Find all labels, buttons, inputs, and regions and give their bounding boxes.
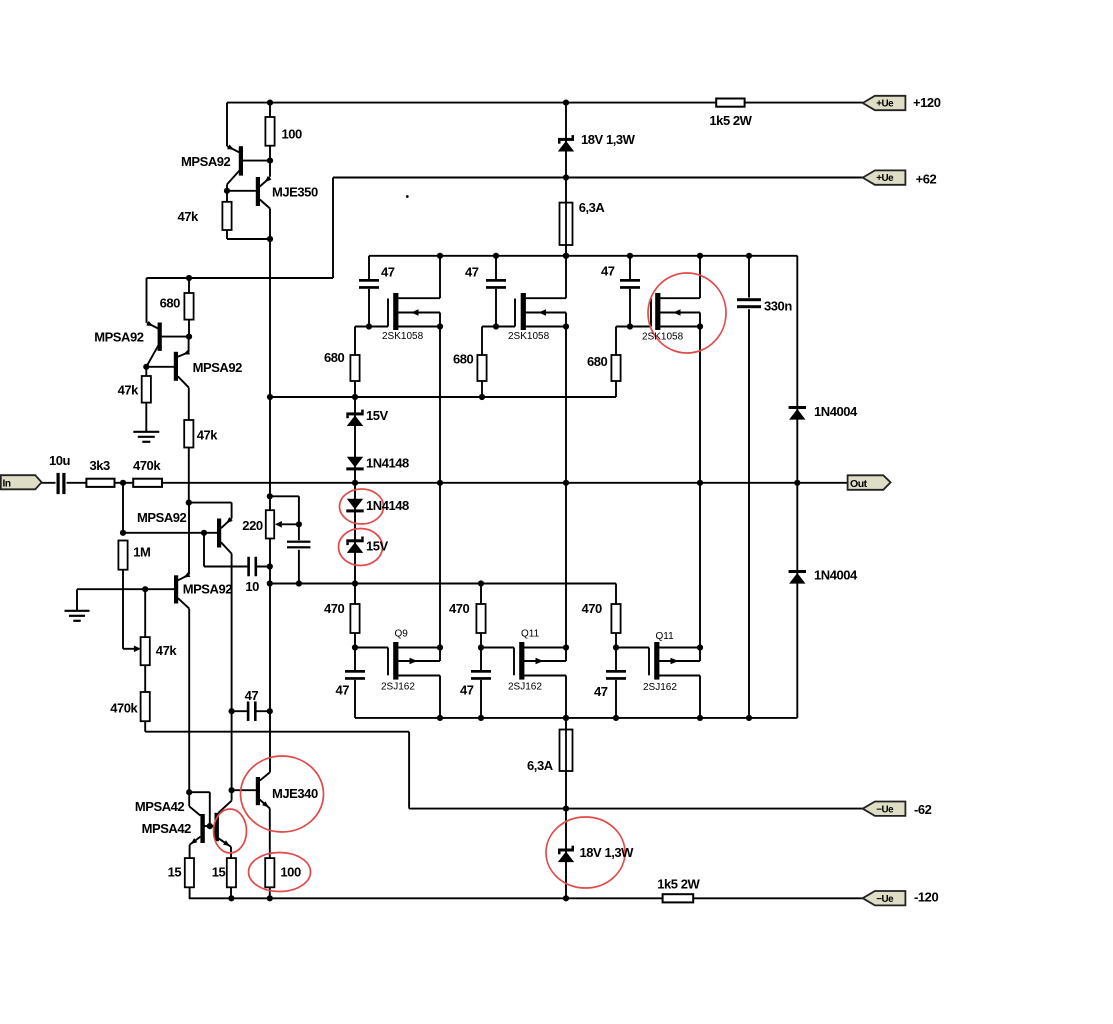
svg-text:1N4148: 1N4148: [366, 456, 409, 471]
svg-text:470: 470: [449, 601, 470, 616]
svg-text:47: 47: [460, 682, 474, 697]
svg-text:15: 15: [212, 865, 226, 880]
svg-text:2SK1058: 2SK1058: [508, 331, 550, 342]
svg-text:Q11: Q11: [521, 629, 540, 640]
svg-text:MPSA92: MPSA92: [94, 330, 144, 345]
svg-text:1k5 2W: 1k5 2W: [657, 877, 700, 892]
svg-text:1M: 1M: [133, 545, 150, 560]
svg-text:18V 1,3W: 18V 1,3W: [580, 845, 635, 860]
svg-text:3k3: 3k3: [90, 458, 111, 473]
svg-text:2SK1058: 2SK1058: [642, 332, 684, 343]
svg-text:47k: 47k: [197, 428, 219, 443]
svg-text:680: 680: [453, 352, 474, 367]
svg-text:MPSA42: MPSA42: [142, 821, 192, 836]
svg-text:MPSA42: MPSA42: [135, 799, 185, 814]
svg-text:47k: 47k: [156, 643, 178, 658]
svg-text:47k: 47k: [118, 383, 140, 398]
svg-text:15V: 15V: [366, 539, 389, 554]
svg-text:1N4004: 1N4004: [814, 567, 858, 582]
svg-text:680: 680: [587, 354, 608, 369]
svg-text:680: 680: [160, 296, 181, 311]
svg-text:18V 1,3W: 18V 1,3W: [581, 132, 636, 147]
svg-text:Q11: Q11: [656, 631, 675, 642]
svg-text:47: 47: [336, 682, 350, 697]
svg-text:100: 100: [280, 865, 301, 880]
svg-text:MPSA92: MPSA92: [137, 510, 187, 525]
svg-text:1k5 2W: 1k5 2W: [709, 113, 752, 128]
svg-text:470k: 470k: [110, 701, 138, 716]
svg-text:220: 220: [242, 518, 263, 533]
svg-text:MPSA92: MPSA92: [183, 582, 233, 597]
svg-text:In: In: [3, 479, 11, 490]
svg-text:+62: +62: [916, 171, 937, 186]
svg-text:MJE340: MJE340: [272, 786, 318, 801]
svg-text:15V: 15V: [366, 408, 389, 423]
svg-text:MPSA92: MPSA92: [193, 360, 243, 375]
svg-text:47: 47: [601, 263, 615, 278]
svg-text:330n: 330n: [764, 298, 792, 313]
svg-text:47k: 47k: [178, 209, 200, 224]
svg-text:-120: -120: [914, 889, 938, 904]
svg-text:1N4004: 1N4004: [814, 404, 858, 419]
svg-text:1N4148: 1N4148: [366, 498, 409, 513]
svg-text:470k: 470k: [133, 458, 161, 473]
svg-text:2SK1058: 2SK1058: [382, 331, 424, 342]
svg-text:15: 15: [168, 865, 182, 880]
svg-text:470: 470: [582, 601, 603, 616]
svg-text:+120: +120: [913, 95, 941, 110]
svg-text:10: 10: [245, 579, 259, 594]
svg-text:+Ue: +Ue: [876, 173, 894, 184]
svg-text:MJE350: MJE350: [272, 185, 318, 200]
svg-text:−Ue: −Ue: [876, 894, 894, 905]
svg-text:47: 47: [594, 684, 608, 699]
svg-text:Q9: Q9: [395, 629, 409, 640]
svg-text:47: 47: [381, 265, 395, 280]
svg-text:−Ue: −Ue: [876, 804, 894, 815]
svg-text:-62: -62: [914, 802, 932, 817]
svg-text:2SJ162: 2SJ162: [643, 682, 677, 693]
svg-text:470: 470: [324, 601, 345, 616]
svg-text:MPSA92: MPSA92: [181, 154, 231, 169]
svg-text:47: 47: [465, 265, 479, 280]
svg-text:+Ue: +Ue: [876, 99, 894, 110]
svg-text:47: 47: [245, 688, 259, 703]
svg-text:6,3A: 6,3A: [579, 200, 606, 215]
svg-text:Out: Out: [850, 478, 868, 490]
svg-text:6,3A: 6,3A: [527, 758, 554, 773]
svg-text:100: 100: [282, 127, 303, 142]
svg-text:2SJ162: 2SJ162: [508, 681, 542, 692]
svg-text:2SJ162: 2SJ162: [381, 681, 415, 692]
svg-text:680: 680: [324, 350, 345, 365]
svg-text:10u: 10u: [49, 453, 71, 468]
